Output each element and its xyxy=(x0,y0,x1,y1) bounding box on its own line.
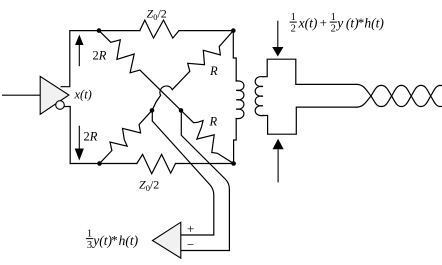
svg-text:+: + xyxy=(187,221,194,236)
svg-text:h(t): h(t) xyxy=(364,16,384,31)
svg-text:2R: 2R xyxy=(93,48,107,62)
svg-text:+: + xyxy=(320,15,327,30)
svg-text:2R: 2R xyxy=(84,129,98,143)
svg-text:1: 1 xyxy=(291,12,296,23)
svg-text:R: R xyxy=(209,114,218,128)
svg-text:*: * xyxy=(358,15,365,30)
svg-text:3: 3 xyxy=(87,240,92,251)
svg-text:x(t): x(t) xyxy=(74,87,92,101)
svg-text:h(t): h(t) xyxy=(119,233,139,248)
svg-text:y(t): y(t) xyxy=(91,233,112,248)
svg-text:y (t): y (t) xyxy=(335,16,359,31)
svg-text:−: − xyxy=(187,237,194,252)
svg-text:Z0/2: Z0/2 xyxy=(147,7,167,23)
svg-text:*: * xyxy=(111,233,118,248)
svg-text:Z0/2: Z0/2 xyxy=(139,178,159,194)
svg-text:x(t): x(t) xyxy=(298,16,318,31)
svg-text:1: 1 xyxy=(87,229,92,240)
svg-text:1: 1 xyxy=(331,12,336,23)
svg-text:2: 2 xyxy=(331,23,336,34)
svg-text:2: 2 xyxy=(291,23,296,34)
svg-text:R: R xyxy=(209,64,218,78)
